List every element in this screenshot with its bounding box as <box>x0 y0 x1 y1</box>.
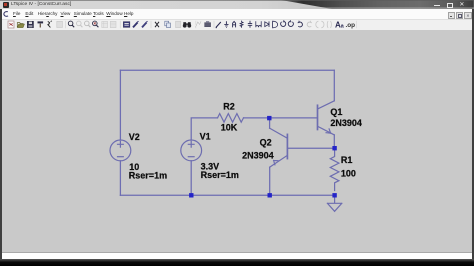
transistor Q1 <box>318 101 335 135</box>
window left border <box>0 0 2 259</box>
toolbar icon control panel <box>38 22 44 27</box>
junction dot R1 bottom <box>332 193 336 197</box>
toolbar icon new schematic <box>8 21 14 28</box>
toolbar icon run <box>47 21 51 28</box>
toolbar icon capacitor <box>248 21 252 28</box>
toolbar icon brush 1 <box>133 21 139 27</box>
toolbar icon spice directive <box>346 22 356 29</box>
svg-text:100: 100 <box>341 169 356 179</box>
toolbar icon brush 2 <box>142 21 148 27</box>
menu bar <box>2 9 472 19</box>
wire V1 bottom <box>190 161 192 196</box>
toolbar icon brace disabled <box>327 21 331 28</box>
toolbar icon redo disabled <box>307 21 312 27</box>
toolbar icon zoom full <box>93 21 99 27</box>
toolbar icons svg <box>0 19 474 30</box>
title bar top edge <box>0 0 474 1</box>
toolbar separator <box>150 21 152 28</box>
ground symbol <box>327 195 341 211</box>
junction dot V1 bottom <box>189 193 193 197</box>
window right border <box>471 0 474 259</box>
wire top rail <box>120 69 334 71</box>
resistor R1 <box>330 148 339 190</box>
close button <box>459 2 466 8</box>
menu items <box>0 11 474 19</box>
svg-text:2N3904: 2N3904 <box>242 151 274 161</box>
toolbar icon zoom back disabled <box>77 21 83 27</box>
wire node A to Q2 collector <box>269 118 271 128</box>
svg-text:Rser=1m: Rser=1m <box>201 170 239 180</box>
minimize button <box>434 5 440 6</box>
svg-text:10K: 10K <box>221 123 238 133</box>
wire V1 top to R2 <box>191 118 217 140</box>
wire Q2 emitter down <box>269 167 271 195</box>
svg-text:R2: R2 <box>223 102 235 112</box>
toolbar icon open <box>17 23 24 28</box>
wire Q1 emitter to node B <box>333 135 335 148</box>
title bar <box>0 0 474 9</box>
menu doc icon <box>3 11 9 17</box>
app icon <box>3 2 9 8</box>
title text <box>11 2 71 7</box>
junction dot Q2 emitter bottom <box>268 193 272 197</box>
transistor Q2 <box>270 128 288 167</box>
toolbar icon label <box>233 21 236 27</box>
maximize button <box>447 3 454 8</box>
canvas bottom edge <box>2 252 472 253</box>
wire Q1 collector up <box>333 70 335 101</box>
svg-text:V1: V1 <box>200 132 211 142</box>
toolbar icon pan <box>123 22 130 28</box>
toolbar icon copy <box>165 21 171 27</box>
title bar dark wedge <box>0 0 474 9</box>
toolbar icon datasheet disabled <box>110 21 116 27</box>
toolbar icon rotate <box>281 20 286 26</box>
toolbar icon find <box>183 22 191 27</box>
voltage source V2 <box>110 140 131 161</box>
bottom window border <box>0 259 474 266</box>
toolbar icon ground <box>224 21 228 27</box>
resistor R2 <box>218 114 244 123</box>
wire left vertical V2 top <box>119 70 121 140</box>
voltage source V1 <box>181 140 202 161</box>
toolbar <box>2 19 472 31</box>
wire V2 bottom <box>119 161 121 196</box>
svg-text:Q1: Q1 <box>330 107 342 117</box>
node B junction dot <box>332 146 336 150</box>
toolbar icon component <box>273 21 278 28</box>
toolbar icon cut <box>155 22 159 27</box>
wire Q2 base to node B <box>288 147 334 149</box>
toolbar icon wire <box>216 22 221 28</box>
toolbar icon inductor <box>256 21 261 27</box>
node A junction dot <box>267 116 271 120</box>
toolbar icon delete <box>196 21 202 27</box>
svg-text:R1: R1 <box>341 155 353 165</box>
toolbar separator <box>213 21 215 28</box>
toolbar icon undo <box>298 21 303 27</box>
wire R2 right to Q1 base <box>244 117 318 119</box>
toolbar icon resistor <box>240 21 243 28</box>
toolbar button edge <box>356 21 358 28</box>
svg-text:V2: V2 <box>129 132 140 142</box>
title bar bottom sheen <box>300 7 474 9</box>
toolbar separator <box>65 21 67 28</box>
svg-text:Q2: Q2 <box>260 137 272 147</box>
toolbar separator <box>119 21 121 28</box>
toolbar icon zoom extents disabled <box>85 21 91 27</box>
toolbar separator <box>195 21 197 28</box>
toolbar icon paste disabled <box>176 21 181 27</box>
child window close <box>464 12 472 19</box>
svg-text:2N3904: 2N3904 <box>330 118 362 128</box>
toolbar icon mirror <box>288 20 293 26</box>
toolbar icon zoom in <box>68 21 74 27</box>
toolbar icon halt disabled <box>57 21 63 27</box>
toolbar icon diode <box>265 21 269 27</box>
toolbar icon paren disabled <box>316 21 324 28</box>
toolbar icon text <box>335 20 345 29</box>
toolbar icon duplicate <box>205 21 211 27</box>
child window restore <box>456 12 464 19</box>
toolbar icon grid disabled <box>102 21 108 27</box>
wire bottom rail <box>120 194 334 196</box>
child window minimize <box>448 12 456 19</box>
svg-text:Rser=1m: Rser=1m <box>129 171 167 181</box>
toolbar icon save <box>27 21 33 28</box>
status bar <box>2 253 472 258</box>
